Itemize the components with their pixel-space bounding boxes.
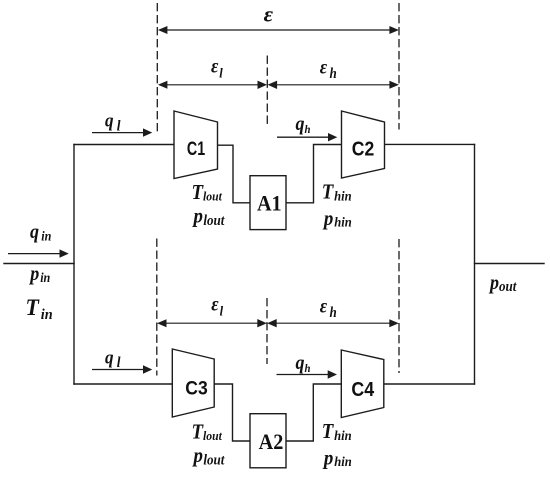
compressor C1 body	[174, 111, 218, 179]
wire: main outlet	[475, 263, 545, 265]
wire: A2 outlet up to C4	[286, 384, 341, 441]
dashed line bottom-middle	[266, 298, 268, 364]
intercooler A1 box	[250, 176, 286, 230]
wire: C3 outlet down to A2	[214, 384, 250, 441]
compressor C2 body	[342, 111, 385, 178]
wire: C2 outlet to right bus	[385, 143, 475, 145]
dashed line bottom-right	[398, 239, 400, 373]
dashed construction lines	[157, 3, 399, 376]
dimension arrow epsilon_l bottom	[159, 322, 264, 324]
wire: C4 outlet to right bus	[384, 383, 475, 385]
dimension arrow epsilon (top span)	[160, 29, 397, 31]
intercooler A2 box	[250, 414, 286, 468]
svg-text:A2: A2	[259, 429, 284, 454]
flow arrow q_in	[8, 253, 61, 255]
svg-text:C3: C3	[185, 377, 207, 399]
compressor C4 body	[341, 350, 384, 418]
dashed line top-right	[398, 3, 400, 130]
svg-text:C1: C1	[187, 138, 205, 159]
wire: A1 outlet up to C2	[286, 145, 342, 203]
wire: right bus	[474, 144, 476, 384]
dimension arrows	[157, 26, 399, 327]
wire: C1 outlet down to A1	[218, 145, 251, 203]
dimension arrow epsilon_l top	[160, 84, 264, 86]
flow arrow q_h top	[277, 136, 330, 138]
svg-text:C2: C2	[352, 137, 374, 159]
dashed line top-middle	[266, 56, 268, 128]
flow arrows	[8, 128, 337, 378]
wire: left bus	[73, 145, 75, 385]
dashed line bottom-left	[156, 239, 158, 376]
wire: bottom branch inlet to C3	[74, 383, 172, 385]
dimension arrow epsilon_h top	[270, 84, 397, 86]
flow arrow q_l top	[92, 132, 144, 134]
dimension arrow epsilon_h bottom	[270, 322, 397, 324]
flow arrow q_h bottom	[277, 374, 330, 376]
wire: main inlet	[4, 263, 74, 265]
flow arrow q_l bottom	[92, 369, 144, 371]
compressor C3 body	[172, 349, 214, 417]
dashed line top-left	[156, 3, 158, 131]
wire: top branch inlet to C1	[74, 144, 174, 146]
svg-text:A1: A1	[257, 191, 282, 216]
svg-text:ε: ε	[264, 2, 274, 27]
svg-text:C4: C4	[351, 379, 374, 401]
